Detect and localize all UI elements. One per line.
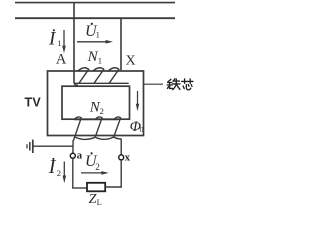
wire: bottom left segment: [72, 187, 87, 189]
svg-text:Z: Z: [89, 192, 97, 207]
svg-text:N: N: [87, 49, 99, 65]
svg-text:X: X: [126, 53, 136, 68]
load resistor ZL (box): [87, 183, 105, 192]
wire: ground to terminal a lead: [34, 145, 73, 147]
bus bar 2 (lower busbar wire): [15, 17, 175, 19]
wire: X side drop from bus 2 to core top: [120, 18, 122, 70]
svg-text:L: L: [97, 197, 102, 207]
wire: secondary lead to terminal x: [120, 139, 122, 155]
wire: A phase drop from bus 1 to primary winding: [74, 3, 78, 86]
label Phi0: [130, 119, 144, 135]
label ZL: [89, 192, 102, 207]
svg-text:A: A: [56, 51, 67, 67]
svg-text:I: I: [48, 29, 57, 50]
svg-text:2: 2: [95, 162, 100, 172]
ground symbol: [27, 140, 33, 153]
wire: a terminal down to load: [72, 158, 74, 188]
winding N1 (primary coil on top limb): [75, 68, 129, 84]
transformer core outer edge: [48, 71, 144, 136]
bus bar 1 (top busbar wire): [15, 2, 175, 4]
svg-text:x: x: [125, 151, 131, 163]
label 铁芯 (iron core), hand drawn glyphs: [167, 79, 193, 90]
svg-text:1: 1: [98, 56, 102, 66]
svg-text:1: 1: [57, 38, 61, 48]
svg-text:1: 1: [96, 30, 100, 40]
voltage arrow U1: [77, 40, 113, 44]
label N2: [89, 99, 104, 116]
wire: x terminal down to load: [120, 160, 122, 188]
voltage arrow U2: [81, 171, 109, 175]
transformer core inner edge (window): [62, 86, 130, 119]
flux arrow Phi0: [136, 91, 139, 111]
wire: secondary lead to terminal a: [72, 140, 74, 153]
label I1 (İ₁): [48, 29, 61, 50]
svg-text:2: 2: [100, 106, 104, 116]
label N1: [87, 49, 102, 66]
label U2 (U̇₂): [85, 152, 100, 172]
winding N2 (secondary coil on bottom limb): [73, 117, 121, 141]
wire: bottom right segment: [105, 186, 122, 188]
label U1 (U̇₁): [85, 23, 100, 40]
label I2 (İ₂): [48, 156, 61, 178]
svg-text:0: 0: [140, 125, 144, 134]
terminal x (circle): [119, 155, 124, 160]
terminal a (circle): [70, 153, 75, 158]
svg-text:a: a: [77, 149, 83, 161]
svg-text:2: 2: [57, 168, 61, 178]
pointer line to core label: [144, 83, 164, 85]
current arrow I1: [62, 30, 66, 53]
current arrow I2: [63, 162, 67, 184]
svg-text:TV: TV: [25, 95, 42, 109]
svg-text:I: I: [48, 156, 57, 178]
